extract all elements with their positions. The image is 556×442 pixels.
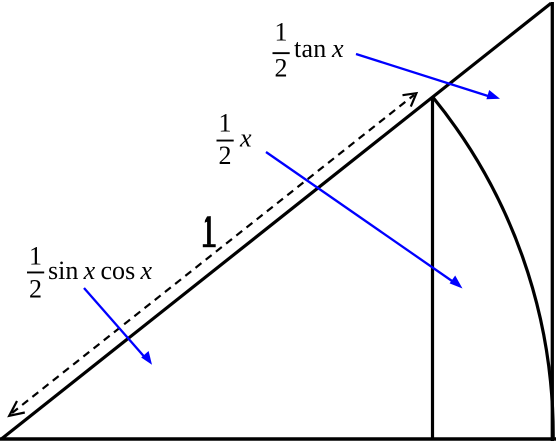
blue arrow to sector region: [266, 152, 463, 289]
svg-text:x: x: [239, 124, 252, 153]
vertical line sin x at P: [431, 97, 434, 440]
label 1/2 sin x cos x: [27, 242, 152, 304]
svg-text:1: 1: [219, 109, 232, 138]
label 1/2 x: [217, 109, 253, 171]
svg-text:tan x: tan x: [294, 34, 344, 63]
dashed radius arrow shaft: [12, 95, 414, 413]
svg-text:2: 2: [29, 275, 42, 304]
dashed arrowhead upper right: [403, 93, 417, 106]
circular arc radius 1: [433, 97, 553, 438]
svg-text:1: 1: [29, 242, 42, 271]
label 1/2 tan x: [273, 18, 344, 83]
blue arrow to tan region: [356, 54, 500, 99]
svg-text:1: 1: [275, 18, 288, 47]
svg-text:2: 2: [275, 54, 288, 83]
svg-text:sin x cos x: sin x cos x: [48, 256, 152, 285]
triangle base (bottom edge): [0, 437, 556, 440]
label 1 (radius): [203, 216, 216, 247]
blue arrow to small triangle region: [84, 288, 152, 365]
right border edge: [551, 2, 554, 441]
dashed arrowhead lower left: [9, 401, 25, 416]
svg-text:2: 2: [219, 141, 232, 170]
